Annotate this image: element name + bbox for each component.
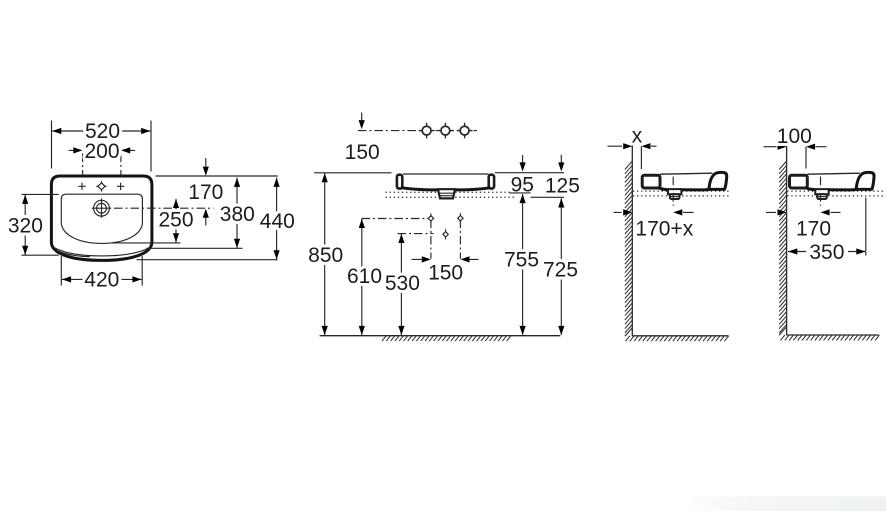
dim 725 line xyxy=(560,198,562,335)
wall face line view3 xyxy=(631,142,633,337)
floor hatch view4 xyxy=(781,335,880,340)
wall hatch view4 xyxy=(779,161,786,335)
basin front lip xyxy=(856,172,874,189)
svg-text:350: 350 xyxy=(809,241,844,264)
fixing hole vertical dashdots xyxy=(431,220,461,259)
drain circles xyxy=(92,199,112,218)
svg-text:755: 755 xyxy=(504,249,539,272)
dim 250 bottom extension xyxy=(112,242,181,244)
dim 380 line xyxy=(236,178,238,249)
dim 95 125 top extension xyxy=(495,172,564,174)
dotted countertop lines view4 xyxy=(787,191,883,196)
wall hatch view3 xyxy=(625,161,632,336)
dim 100 extension xyxy=(805,147,807,169)
svg-text:850: 850 xyxy=(308,244,343,267)
dim 440 bottom extension xyxy=(137,259,278,261)
dim 420 extensions xyxy=(61,256,142,286)
dim x extension xyxy=(640,146,642,169)
dim 350 line xyxy=(788,251,865,253)
front apron small arc xyxy=(58,251,91,257)
dim 170+x line xyxy=(614,211,694,213)
dim 200 line xyxy=(69,149,136,151)
washbasin plan view outer outline xyxy=(51,176,151,260)
faucet centerline dashdot xyxy=(358,130,477,132)
svg-text:150: 150 xyxy=(428,261,463,284)
svg-text:250: 250 xyxy=(158,209,193,232)
svg-text:150: 150 xyxy=(345,141,380,164)
faucet hole right cross xyxy=(117,183,124,190)
drain centerline xyxy=(672,177,674,206)
basin elevation right tab xyxy=(489,175,494,189)
basin top rim line xyxy=(807,173,860,174)
dim 100 line xyxy=(764,146,827,148)
svg-text:x: x xyxy=(632,125,643,148)
basin elevation top rim xyxy=(403,173,489,175)
drain centerline xyxy=(820,177,822,206)
dim 850 line xyxy=(324,173,326,335)
floor line view4 xyxy=(787,334,879,336)
faucet hole circles xyxy=(419,123,435,139)
basin underside xyxy=(660,188,710,190)
svg-text:530: 530 xyxy=(385,272,420,295)
drain horizontal centerline xyxy=(114,207,213,209)
faucet hole center diamond xyxy=(96,181,106,191)
dim 170 line view4 xyxy=(766,211,841,213)
dim 530 line xyxy=(400,234,402,335)
dim 440 line xyxy=(276,178,278,260)
dim 320 line xyxy=(24,195,26,255)
dim 150 top arrow xyxy=(361,113,363,121)
top extension line right xyxy=(156,175,278,177)
dim 170 arrows xyxy=(205,158,207,226)
floor hatch middle xyxy=(382,336,511,341)
dim 610 line xyxy=(361,219,363,335)
dim 380 bottom extension xyxy=(147,247,243,249)
svg-text:610: 610 xyxy=(347,265,382,288)
wall face line view4 xyxy=(786,142,788,336)
dim 420 line xyxy=(62,278,142,280)
svg-text:170+x: 170+x xyxy=(635,218,693,241)
svg-text:100: 100 xyxy=(777,125,812,148)
drain boss xyxy=(815,189,828,194)
dim 520 extension lines xyxy=(52,121,152,172)
fixing holes dashdot upper xyxy=(361,218,428,220)
svg-text:320: 320 xyxy=(8,215,43,238)
drain boss elevation xyxy=(438,189,455,198)
dim 520 line xyxy=(52,130,150,132)
svg-text:725: 725 xyxy=(543,258,578,281)
svg-text:170: 170 xyxy=(796,218,831,241)
faucet hole left cross xyxy=(78,183,85,190)
washbasin inner rim xyxy=(61,194,142,243)
dim 350 extension xyxy=(865,198,867,256)
bowl front arc xyxy=(54,248,149,256)
basin elevation left tab xyxy=(397,175,402,189)
svg-text:420: 420 xyxy=(84,268,119,291)
dim 200 extension dashdot xyxy=(83,154,121,176)
floor hatch view3 xyxy=(626,336,729,341)
basin underside xyxy=(807,188,857,190)
fixing hole diamonds xyxy=(428,213,433,223)
svg-text:200: 200 xyxy=(84,140,119,163)
svg-text:170: 170 xyxy=(188,181,223,204)
floor line middle xyxy=(320,335,561,337)
basin back tab xyxy=(790,175,808,188)
drain boss xyxy=(668,189,681,194)
dim 95 down arrow xyxy=(522,155,524,163)
svg-text:440: 440 xyxy=(260,210,295,233)
fixing holes dashdot lower xyxy=(398,233,434,235)
dotted countertop lines xyxy=(633,191,731,196)
svg-text:380: 380 xyxy=(220,203,255,226)
dim 125 down arrow xyxy=(560,155,562,163)
dim x line xyxy=(608,145,657,147)
countertop dotted lines xyxy=(386,192,515,197)
basin elevation underside xyxy=(403,188,490,190)
dim 320 extensions xyxy=(22,194,59,255)
basin front lip xyxy=(709,172,727,189)
dim 250 line xyxy=(175,199,177,243)
floor line view3 xyxy=(632,335,728,337)
dim 755 line xyxy=(522,194,524,335)
basin back tab xyxy=(642,175,660,188)
svg-text:125: 125 xyxy=(545,174,580,197)
dim 850 top extension xyxy=(314,172,392,174)
basin top rim line xyxy=(660,173,713,174)
dim 150 horizontal line xyxy=(412,258,479,260)
